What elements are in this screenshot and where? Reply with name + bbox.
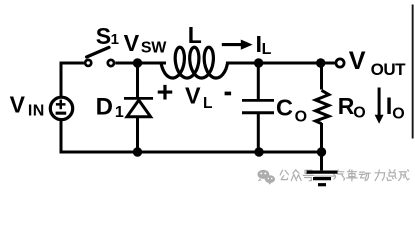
node VOUT junction	[316, 58, 325, 67]
svg-text:O: O	[353, 105, 365, 122]
svg-text:R: R	[338, 93, 355, 119]
wire bottom rail	[61, 121, 322, 153]
figure border line	[412, 5, 414, 139]
svg-text:L: L	[188, 22, 202, 48]
node diode-rail	[133, 147, 142, 156]
node VSW	[133, 58, 142, 67]
wire cap bottom	[257, 113, 260, 152]
svg-text:D: D	[96, 93, 113, 120]
ground	[320, 152, 323, 170]
node cap-rail	[254, 147, 263, 156]
wire switch to coil	[115, 62, 166, 65]
diode D1	[124, 97, 153, 100]
svg-text:1: 1	[115, 104, 124, 121]
svg-text:SW: SW	[141, 39, 167, 56]
inductor L	[161, 47, 228, 78]
terminal VOUT	[336, 59, 344, 67]
svg-text:IN: IN	[28, 103, 45, 120]
wire coil to vout	[226, 62, 335, 65]
svg-text:L: L	[262, 41, 272, 58]
resistor RO	[316, 90, 329, 123]
svg-text:O: O	[392, 106, 404, 123]
svg-text:+: +	[157, 77, 174, 109]
svg-text:S: S	[96, 23, 111, 49]
svg-text:V: V	[349, 47, 366, 75]
wire top-left	[61, 63, 84, 97]
capacitor CO	[242, 99, 274, 102]
wire diode to rail	[136, 118, 139, 153]
wire resistor bottom	[320, 123, 323, 152]
wire cap top	[257, 63, 260, 100]
watermark remnant stroke	[315, 175, 337, 177]
voltage source VIN	[50, 97, 72, 119]
wire vsw down	[136, 63, 139, 97]
svg-text:V: V	[124, 30, 140, 56]
switch S1	[85, 60, 91, 66]
node resistor-rail	[317, 147, 326, 156]
arrow IO	[378, 88, 381, 116]
svg-text:1: 1	[111, 31, 119, 48]
wire resistor top	[320, 63, 323, 90]
svg-text:V: V	[10, 92, 26, 118]
svg-text:L: L	[203, 95, 213, 112]
watermark wechat icon	[258, 170, 276, 185]
arrow IL	[222, 43, 242, 46]
svg-text:V: V	[185, 82, 201, 108]
svg-text:O: O	[295, 108, 307, 125]
node IL junction	[254, 58, 263, 67]
watermark text 公众号：电动汽车动力总成 (vector strokes)	[280, 170, 409, 181]
svg-text:C: C	[276, 94, 293, 120]
svg-text:I: I	[386, 94, 393, 120]
label VL minus	[225, 92, 232, 96]
svg-text:OUT: OUT	[371, 60, 407, 79]
